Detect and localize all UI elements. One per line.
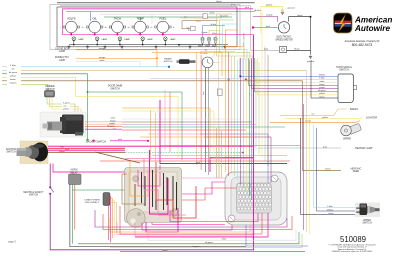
svg-text:gray: gray: [323, 146, 327, 148]
wire lt green dimmer down: [47, 97, 62, 104]
wire black lamp bus dot: [178, 44, 202, 46]
svg-text:-: -: [129, 26, 130, 29]
gauge OIL: [84, 16, 107, 35]
label heat ac feed: [351, 167, 362, 173]
svg-text:yellow: yellow: [63, 109, 69, 111]
svg-text:SWITCH: SWITCH: [6, 152, 15, 154]
label lamp feeds: [184, 16, 217, 36]
wire dk green left run: [21, 74, 88, 140]
wire orange lighter: [270, 121, 360, 123]
svg-text:white: white: [100, 59, 106, 62]
svg-text:-: -: [152, 26, 153, 29]
svg-text:SWITCH: SWITCH: [164, 61, 173, 63]
label pink: [245, 7, 250, 9]
node backup green: [86, 139, 94, 142]
label part number 510089: [340, 235, 366, 244]
wire tan radio: [280, 109, 347, 116]
label ground: [288, 7, 296, 10]
label brake switch: [164, 58, 173, 64]
wire magenta fuse-bulkhead corner: [210, 158, 254, 173]
wire mess fuse box: [122, 150, 196, 232]
label clock: [200, 53, 208, 55]
svg-text:OIL: OIL: [93, 16, 98, 20]
label lt blue left bundle: [2, 64, 17, 67]
wire lt blue cluster loop: [223, 24, 248, 60]
label white: [209, 12, 215, 15]
brake switch S3: [177, 59, 196, 64]
wire middle crossings fusebox feeds: [95, 100, 290, 164]
label electronic speedometer: [275, 37, 293, 42]
fuse elements: [142, 170, 177, 212]
wire pink speedo: [253, 27, 278, 29]
column backup switch assembly: [40, 112, 86, 137]
svg-text:lp: lp: [188, 30, 189, 32]
wire dk green horn drop: [72, 185, 125, 244]
bulkhead bolt bottom: [228, 215, 235, 222]
wire red horn drop: [74, 185, 76, 230]
wire dk blue top feed: [66, 12, 255, 22]
svg-text:-: -: [84, 26, 85, 29]
svg-text:DIMMER: DIMMER: [45, 86, 55, 88]
svg-text:-: -: [106, 26, 107, 29]
svg-text:dk green: dk green: [107, 126, 115, 128]
bulkhead connector J2: [225, 172, 287, 225]
wire yellow speedo feed: [261, 6, 284, 33]
wire tan column: [70, 107, 78, 114]
wire tan clock: [212, 51, 219, 62]
wire white bottom run: [148, 222, 296, 241]
svg-text:SWITCH: SWITCH: [362, 222, 372, 225]
lamp gauge illumination: [118, 37, 130, 45]
wiper motor M2: [341, 124, 361, 136]
wire yellow left run: [21, 77, 178, 158]
wire lt blue brake lamp: [216, 34, 223, 38]
wire magenta main vertical: [253, 35, 255, 251]
label 8 AMP fuses: [198, 45, 218, 48]
svg-text:lt green: lt green: [63, 102, 70, 105]
label wiper switch: [362, 219, 372, 225]
label radio: [350, 107, 358, 111]
wire lavender crossing: [150, 78, 240, 80]
wire turn signal bundle: [228, 58, 338, 98]
wire black speedo feed: [289, 16, 312, 55]
svg-text:brown: brown: [325, 169, 330, 171]
fuse box brown element: [134, 184, 136, 206]
horn relay K1: [69, 174, 82, 185]
wire tan band column: [217, 126, 222, 178]
wire purple connector feed: [204, 137, 271, 183]
wire lt green column: [70, 104, 75, 113]
label dk blue: [254, 10, 262, 12]
wire brown heat ac: [303, 81, 342, 171]
wire orange dome drop: [156, 50, 158, 67]
svg-text:purple: purple: [266, 14, 273, 17]
label fuse vertical: [203, 91, 205, 95]
svg-text:black: black: [329, 213, 334, 215]
wire magenta column right: [85, 128, 122, 130]
label address line: [345, 40, 380, 43]
svg-text:brown: brown: [10, 78, 17, 81]
wire orange cluster loop: [226, 30, 245, 60]
wire red bulkhead exit: [120, 206, 262, 234]
label black speedo: [297, 15, 303, 17]
wire orange clock loop: [152, 53, 222, 77]
label dk green left bundle: [2, 71, 18, 74]
wire black lamp ground bus: [69, 44, 228, 46]
label horn relay: [70, 170, 78, 175]
wire tan left run: [21, 69, 307, 71]
svg-text:yellow: yellow: [266, 5, 272, 7]
label dome ctsy lamp: [55, 56, 70, 62]
ground yellow: [281, 13, 284, 15]
svg-text:dk blue: dk blue: [327, 209, 334, 211]
svg-text:CLOCK: CLOCK: [200, 53, 208, 55]
lamp gauge illumination: [164, 37, 176, 45]
wire pink band: [117, 222, 254, 235]
wire lt green bottom run: [110, 234, 302, 248]
label cluster connector vertical: [244, 32, 246, 46]
ground speedo sensor: [309, 56, 312, 58]
wire extra mesh: [122, 12, 301, 166]
svg-text:BRAKE: BRAKE: [164, 58, 172, 61]
svg-text:black: black: [320, 96, 325, 98]
label phone: [352, 43, 373, 47]
logo text Autowire: [354, 24, 390, 33]
wire purple speedo feed: [253, 16, 277, 21]
wire lt green dimmer feed: [21, 84, 48, 90]
svg-text:lt green: lt green: [10, 82, 18, 85]
wire purple bottom run: [50, 194, 253, 250]
wire gray sensor: [251, 49, 280, 51]
wire magenta ignition down: [53, 164, 126, 173]
svg-text:800-482-9473: 800-482-9473: [352, 43, 373, 47]
wire dk green door jamb: [87, 91, 182, 160]
wire orange glove box: [76, 47, 157, 50]
svg-text:dk green: dk green: [205, 242, 213, 244]
svg-text:red: red: [113, 129, 116, 131]
svg-text:VOLTS: VOLTS: [67, 16, 76, 20]
svg-text:brown: brown: [162, 250, 167, 252]
wire tan lamp loop: [180, 17, 223, 19]
svg-text:orange: orange: [305, 121, 312, 123]
label black sensor: [294, 49, 300, 51]
label door jamb switch: [108, 85, 123, 91]
bulkhead bolt top: [271, 175, 278, 182]
wire dk green top feed: [104, 17, 232, 21]
wire white top feed: [100, 14, 236, 24]
label turn signal switch: [336, 66, 353, 72]
wire yellow column: [70, 109, 81, 113]
svg-text:dk green: dk green: [318, 90, 326, 92]
lamp gauge illumination: [72, 37, 84, 45]
svg-text:black: black: [294, 49, 300, 51]
gauge TEMP: [129, 16, 152, 35]
wire dk blue wiper switch: [317, 209, 358, 211]
svg-text:page 3: page 3: [8, 240, 16, 243]
logo American Autowire icon: [334, 13, 353, 33]
wire fan power disconnect: [109, 195, 117, 243]
svg-text:-: -: [60, 26, 61, 29]
wire pink ignition: [48, 149, 125, 151]
svg-text:LAMP: LAMP: [78, 38, 84, 41]
wire brown left run: [21, 80, 303, 82]
wire brown ignition: [48, 151, 125, 153]
label ignition switch: [6, 149, 17, 154]
svg-text:red: red: [61, 147, 64, 149]
wire dk green bottom run: [78, 232, 299, 244]
wire pink backup: [110, 139, 149, 142]
svg-text:92969467 instruction sheet rev: 92969467 instruction sheet rev. 3.0 8/22…: [332, 250, 373, 253]
wire bulkhead feeds: [135, 165, 252, 236]
wire tan dimmer down: [50, 97, 63, 107]
svg-text:6 WAY POWER: 6 WAY POWER: [84, 199, 100, 202]
svg-text:brown: brown: [59, 151, 64, 153]
label copyright block: [328, 243, 376, 253]
label yellow left bundle: [2, 76, 16, 78]
wire lt blue brake feed: [21, 66, 170, 68]
node pink speedo tap: [252, 26, 254, 28]
wire red ignition: [48, 147, 125, 149]
gauge VOLTS: [60, 16, 83, 35]
dimmer switch S1: [45, 91, 55, 98]
svg-text:dk green: dk green: [9, 71, 18, 74]
gen lamp box: [187, 26, 195, 31]
wire yellow dimmer down: [52, 97, 62, 109]
svg-text:tan: tan: [312, 113, 315, 116]
svg-text:8 AMP: 8 AMP: [212, 45, 218, 48]
wire black wiper switch: [301, 213, 358, 215]
wire white dome: [76, 59, 140, 67]
wire blue connector feed: [200, 134, 268, 183]
wire right vertical bundle: [301, 70, 317, 234]
wire dk blue lamp: [203, 26, 226, 38]
fuse box panel: [125, 168, 182, 228]
label page 3: [8, 240, 16, 243]
wire magenta band2: [152, 223, 225, 225]
wire magenta fusebox to bulkhead: [170, 210, 258, 222]
svg-text:orange: orange: [99, 56, 106, 59]
label black: [216, 1, 222, 3]
wire lt green cluster loop: [220, 20, 251, 60]
wire orange dome: [76, 56, 157, 59]
wire tan column right: [85, 123, 122, 125]
svg-text:ground: ground: [288, 7, 296, 10]
svg-text:TACH: TACH: [114, 16, 121, 20]
wire magenta bulkhead exit: [135, 213, 268, 237]
wire yellow lighter: [285, 117, 363, 119]
gauge FUEL: [152, 16, 175, 35]
svg-text:orange: orange: [99, 47, 106, 50]
instrument cluster outer housing: [50, 5, 240, 50]
wire tan cluster loop: [217, 14, 254, 60]
wire brown bottom run: [120, 250, 305, 252]
svg-text:yellow: yellow: [322, 117, 328, 119]
svg-text:SWITCH: SWITCH: [110, 87, 120, 90]
fuse symbol clock feed: [217, 89, 222, 96]
svg-text:LAMP: LAMP: [124, 38, 130, 41]
label ground sensor: [307, 60, 315, 63]
svg-text:LAMP: LAMP: [102, 38, 108, 41]
svg-text:lt blue: lt blue: [319, 77, 325, 80]
svg-text:LIGHTER: LIGHTER: [366, 115, 377, 119]
svg-text:LAMP: LAMP: [170, 38, 176, 41]
svg-text:IGNITION: IGNITION: [6, 149, 17, 151]
svg-text:WIPER: WIPER: [343, 138, 351, 141]
wire black sensor ground: [287, 49, 311, 51]
label dk green: [220, 14, 229, 17]
svg-text:fuse: fuse: [203, 91, 205, 95]
turn signal switch S4: [338, 74, 357, 103]
svg-text:SWITCH: SWITCH: [339, 69, 349, 72]
wire lt green hi-beam lamp: [209, 31, 220, 38]
indicator lamps hi-beam / gen / brake: [201, 37, 217, 45]
ignition switch photo: [17, 141, 49, 164]
label dimmer wires: [63, 102, 70, 111]
svg-text:lt blue: lt blue: [10, 64, 16, 67]
label pink mid: [196, 162, 200, 164]
wiper switch photo: [355, 203, 380, 218]
wire pink gauge bus: [63, 9, 254, 35]
svg-text:SWITCH: SWITCH: [29, 195, 38, 197]
svg-text:black: black: [297, 15, 303, 17]
label wiper: [343, 138, 351, 141]
label backup switch: [86, 141, 106, 144]
label tan left bundle: [2, 68, 15, 71]
wire gray heater lamp: [258, 146, 341, 148]
label glove box lamp: [55, 47, 69, 53]
gauge TACH: [106, 16, 129, 35]
svg-text:lt green: lt green: [193, 245, 200, 248]
svg-text:ELECTRONIC: ELECTRONIC: [277, 37, 292, 39]
svg-text:BACKUP SWITCH: BACKUP SWITCH: [86, 141, 106, 144]
label lt green left bundle: [2, 82, 17, 85]
label neutral safety switch: [23, 191, 44, 197]
svg-text:yellow: yellow: [319, 93, 325, 95]
wire gray top feed: [60, 6, 251, 51]
wire pink top feed: [63, 8, 253, 10]
svg-text:dk green: dk green: [220, 14, 229, 17]
wire lt blue wiper switch: [314, 205, 358, 208]
svg-text:tan: tan: [205, 49, 208, 52]
wire tan cluster bottom: [200, 49, 235, 52]
label gray: [231, 3, 236, 6]
svg-text:DISCONNECT: DISCONNECT: [85, 202, 100, 204]
electronic speedometer U1: [278, 22, 289, 33]
wire red band: [103, 214, 292, 230]
svg-text:8 AMP: 8 AMP: [205, 45, 211, 48]
svg-text:INST CLUSTER: INST CLUSTER: [244, 32, 246, 46]
wire brown gen lamp: [182, 21, 218, 29]
label heater lamp: [355, 147, 373, 150]
svg-text:brown: brown: [319, 84, 324, 86]
label dimmer switch: [45, 86, 55, 91]
power disconnect connector J1: [103, 193, 110, 206]
label lighter: [366, 115, 377, 119]
wire center vertical bundle: [197, 47, 252, 201]
svg-text:LAMP: LAMP: [59, 50, 66, 53]
wire black top feed: [57, 2, 255, 4]
svg-text:dk blue: dk blue: [319, 75, 326, 77]
wire orange band: [110, 218, 250, 232]
svg-text:Autowire: Autowire: [354, 24, 390, 33]
label 6-way power disconnect: [84, 199, 100, 205]
wire orange column right: [85, 121, 122, 123]
wire purple band: [95, 210, 287, 227]
wire magenta ignition main: [48, 145, 253, 147]
svg-text:tan: tan: [64, 104, 67, 107]
brake lamp box: [203, 14, 207, 19]
label pink speedo: [266, 26, 271, 28]
lamp gauge illumination: [141, 37, 153, 45]
wire red column right: [85, 126, 122, 128]
svg-text:lt blue: lt blue: [327, 205, 333, 208]
speed sensor box: [280, 47, 287, 53]
wire middle crossings left labels: [107, 116, 285, 130]
label brown left bundle: [2, 78, 17, 81]
label purple: [266, 14, 273, 17]
clock M1: [202, 57, 213, 68]
neutral safety switch S2: [49, 186, 54, 195]
svg-text:FUEL: FUEL: [159, 16, 166, 20]
svg-text:LAMP: LAMP: [59, 59, 66, 62]
svg-text:pink: pink: [196, 162, 200, 164]
svg-text:LAMP: LAMP: [147, 38, 153, 41]
svg-text:purple: purple: [319, 87, 325, 89]
svg-text:yellow: yellow: [10, 76, 16, 78]
svg-text:FEED: FEED: [353, 170, 360, 173]
label gray sensor: [264, 48, 269, 51]
svg-text:SPEEDOMETER: SPEEDOMETER: [275, 39, 293, 41]
svg-text:white: white: [209, 12, 215, 15]
svg-text:HEATER LAMP: HEATER LAMP: [355, 147, 373, 150]
wire black horn drop: [70, 185, 246, 247]
instrument cluster inner housing: [57, 7, 237, 47]
svg-text:510089: 510089: [340, 235, 366, 244]
lamp gauge illumination: [95, 37, 107, 45]
svg-text:pink: pink: [118, 139, 122, 141]
svg-text:RADIO: RADIO: [350, 107, 358, 111]
svg-text:pink: pink: [65, 149, 69, 151]
wire purple neutral safety: [49, 164, 51, 187]
svg-text:TEMP: TEMP: [136, 16, 144, 20]
ground cluster bus drops: [67, 45, 226, 48]
svg-text:HORN: HORN: [71, 170, 78, 172]
label yellow: [266, 5, 272, 7]
wire blue bottom run: [246, 225, 308, 246]
logo text American: [354, 16, 392, 25]
svg-text:black: black: [216, 1, 222, 3]
svg-text:NEUTRAL SAFETY: NEUTRAL SAFETY: [23, 191, 44, 194]
